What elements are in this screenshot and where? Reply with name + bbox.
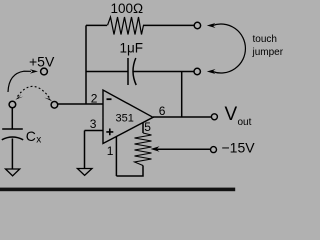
wire cap right lead to bottom terminal	[133, 71, 194, 73]
wire feedback vertical to output	[181, 72, 183, 118]
arrow solid to +5V	[8, 71, 31, 92]
wire pin3 to ground	[84, 131, 86, 169]
terminal circle right (input lead)	[51, 102, 58, 109]
wire wiper to -15V terminal	[157, 148, 211, 150]
capacitor C1 1uF left plate	[127, 58, 129, 85]
wire top feedback horizontal left segment	[86, 24, 107, 26]
op-amp plus sign pin3	[106, 129, 113, 136]
wire output pin 6	[153, 116, 211, 118]
svg-text:3: 3	[90, 117, 97, 131]
capacitor C1 1uF curved plate	[133, 58, 136, 85]
terminal circle left (Cx lead)	[9, 101, 16, 108]
touch jumper arrowhead top	[207, 23, 216, 28]
terminal circle -15V	[211, 147, 217, 153]
svg-text:351: 351	[116, 113, 134, 125]
wire pin1 down	[115, 137, 117, 177]
resistor R 100ohm zigzag	[108, 17, 144, 35]
svg-text:+5V: +5V	[29, 54, 55, 70]
terminal circle Vout	[211, 114, 217, 120]
svg-text:1μF: 1μF	[120, 41, 144, 56]
wire inverting input pin 2	[58, 103, 103, 105]
wire noninverting input pin 3	[85, 130, 104, 132]
svg-text:5: 5	[144, 120, 151, 134]
bottom rule bar	[0, 188, 235, 192]
svg-text:100Ω: 100Ω	[111, 1, 144, 16]
svg-text:V: V	[225, 104, 238, 125]
terminal circle top (touch jumper upper)	[194, 22, 200, 28]
ground symbol left	[6, 169, 20, 176]
svg-text:6: 6	[159, 104, 166, 118]
op-amp minus sign pin2	[107, 98, 112, 100]
svg-text:1: 1	[107, 144, 114, 158]
terminal circle bottom (touch jumper lower)	[194, 68, 200, 74]
wire pot bottom return	[116, 166, 143, 177]
wire pin5 stub	[142, 123, 144, 133]
wire resistor to top terminal	[143, 24, 194, 26]
potentiometer wiper arrowhead	[151, 146, 160, 152]
svg-text:touch: touch	[253, 34, 277, 45]
wire cap left lead	[86, 71, 128, 73]
arrowhead solid to +5V	[30, 69, 38, 73]
capacitor Cx top plate	[2, 128, 23, 130]
touch jumper arrowhead bottom	[207, 69, 216, 74]
svg-text:−15V: −15V	[222, 140, 256, 156]
op-amp U1 triangle	[103, 90, 153, 144]
wire input node vertical	[85, 25, 87, 104]
wire left circle to Cx	[11, 108, 13, 129]
svg-text:C: C	[26, 128, 36, 144]
terminal circle +5V	[41, 68, 48, 75]
dashed arc arrowhead right	[44, 95, 52, 101]
svg-text:jumper: jumper	[252, 47, 284, 58]
wire Cx to ground	[11, 139, 13, 170]
capacitor Cx curved plate	[2, 137, 23, 140]
dashed arc arrowhead left	[15, 94, 23, 100]
svg-text:out: out	[238, 117, 252, 128]
ground symbol right	[77, 169, 92, 176]
dashed arrow arc between left terminals	[18, 86, 51, 99]
touch jumper arc	[213, 24, 246, 73]
potentiometer offset null zigzag	[135, 133, 152, 166]
svg-text:x: x	[36, 135, 41, 146]
